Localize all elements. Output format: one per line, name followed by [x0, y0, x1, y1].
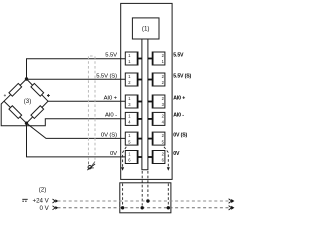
svg-text:0 V: 0 V [40, 205, 50, 212]
svg-text:5.5V (S): 5.5V (S) [96, 73, 117, 79]
svg-text:(2): (2) [39, 187, 47, 194]
svg-text:2: 2 [162, 53, 165, 58]
svg-text:(1): (1) [142, 26, 150, 33]
svg-text:1: 1 [128, 59, 131, 64]
svg-text:2: 2 [162, 114, 165, 119]
svg-text:5.5V (S): 5.5V (S) [173, 73, 191, 79]
svg-text:2: 2 [162, 74, 165, 79]
svg-text:2: 2 [162, 133, 165, 138]
svg-text:2: 2 [128, 80, 131, 85]
svg-text:5: 5 [162, 139, 165, 144]
svg-text:2: 2 [162, 152, 165, 157]
svg-text:6: 6 [128, 158, 131, 163]
svg-text:AI0 -: AI0 - [173, 113, 184, 119]
svg-text:0V (S): 0V (S) [173, 132, 187, 138]
svg-text:5.5V: 5.5V [173, 52, 184, 58]
svg-text:0V: 0V [173, 151, 180, 157]
svg-text:(3): (3) [24, 98, 32, 105]
svg-text:5.5V: 5.5V [105, 52, 117, 58]
svg-text:2: 2 [162, 96, 165, 101]
svg-text:AI0 +: AI0 + [173, 95, 185, 101]
svg-text:1: 1 [128, 133, 131, 138]
svg-text:3: 3 [162, 102, 165, 107]
svg-text:1: 1 [128, 96, 131, 101]
svg-text:+24 V: +24 V [32, 197, 49, 204]
svg-text:3: 3 [128, 102, 131, 107]
svg-text:0V (S): 0V (S) [101, 132, 117, 138]
svg-text:1: 1 [128, 53, 131, 58]
svg-text:AI0 +: AI0 + [104, 95, 118, 101]
svg-text:6: 6 [162, 158, 165, 163]
svg-text:5: 5 [128, 139, 131, 144]
svg-text:2: 2 [162, 80, 165, 85]
svg-text:1: 1 [128, 152, 131, 157]
svg-text:1: 1 [162, 59, 165, 64]
svg-text:4: 4 [162, 120, 165, 125]
svg-text:1: 1 [128, 114, 131, 119]
svg-text:4: 4 [128, 120, 131, 125]
svg-text:1: 1 [128, 74, 131, 79]
svg-text:0V: 0V [110, 151, 117, 157]
svg-text:AI0 -: AI0 - [105, 113, 117, 119]
